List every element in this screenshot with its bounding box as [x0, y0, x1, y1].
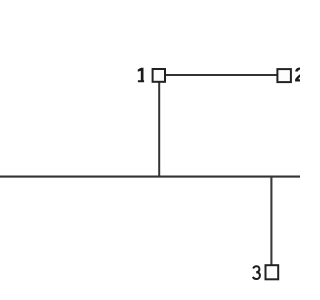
label 3 (digit drawn as stroked path, two bowls)	[253, 266, 260, 279]
node 3 (square)	[266, 265, 279, 279]
node 2 (square)	[277, 69, 291, 82]
wire node1 to bus (vertical)	[158, 83, 160, 177]
bus wire (horizontal line full width)	[0, 176, 302, 178]
wire bus to node3 (vertical)	[270, 177, 272, 266]
node 1 (square)	[153, 69, 165, 82]
wire node1 to node2 (horizontal)	[166, 74, 278, 76]
label 1 (digit drawn as path: stem, foot bar, flag)	[138, 68, 144, 83]
svg-text:2: 2	[294, 65, 300, 87]
